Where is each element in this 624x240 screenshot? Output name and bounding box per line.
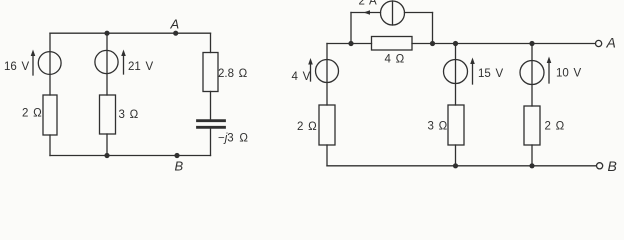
resistor 2 ohm (right circuit right) — [524, 106, 540, 145]
svg-text:2 Ω: 2 Ω — [22, 108, 42, 120]
svg-text:A: A — [170, 17, 180, 32]
wire: right circuit middle branch vertical — [455, 44, 457, 106]
wire: right circuit left branch vertical — [326, 44, 328, 106]
svg-text:3 Ω: 3 Ω — [119, 109, 139, 121]
capacitor -j3 ohm — [198, 121, 225, 128]
junction: right branch on bottom rail — [529, 163, 534, 168]
wire: left circuit right branch vertical — [210, 33, 212, 52]
wire: left circuit left branch vertical — [49, 33, 51, 95]
resistor 2 ohm (left circuit) — [43, 95, 57, 135]
junction: right branch on top rail — [529, 41, 534, 46]
svg-text:21 V: 21 V — [128, 61, 153, 73]
terminal B (open circle) — [597, 163, 603, 169]
resistor 4 ohm — [372, 37, 413, 51]
svg-text:2.8 Ω: 2.8 Ω — [218, 68, 248, 80]
wire: right circuit bottom rail — [327, 165, 596, 167]
wire: 2A loop left side — [351, 12, 381, 14]
junction: middle branch on top rail — [453, 41, 458, 46]
junction: middle branch on bottom rail — [453, 163, 458, 168]
wire: right circuit top rail — [327, 43, 372, 45]
svg-text:4 Ω: 4 Ω — [385, 53, 405, 65]
svg-text:16 V: 16 V — [4, 61, 29, 73]
svg-text:2 Ω: 2 Ω — [545, 121, 565, 133]
wire: left circuit bottom rail — [50, 155, 211, 157]
svg-text:3 Ω: 3 Ω — [428, 121, 448, 133]
junction: middle branch to bottom rail — [104, 153, 109, 158]
current source 2 A — [381, 1, 405, 25]
resistor 3 ohm (left circuit) — [100, 95, 116, 134]
voltage source 4 V — [308, 58, 338, 83]
voltage source 15 V — [444, 58, 475, 85]
arrow for 2 A (pointing left) — [364, 10, 371, 15]
junction: 2A loop right on top rail — [430, 41, 435, 46]
svg-text:B: B — [175, 159, 184, 173]
node A (left circuit) — [173, 31, 178, 36]
wire: right circuit right branch vertical — [531, 44, 533, 107]
voltage source 16 V — [31, 50, 61, 76]
resistor 3 ohm (right circuit) — [448, 105, 464, 145]
wire: left circuit middle branch vertical — [106, 33, 108, 95]
svg-text:B: B — [608, 158, 617, 172]
voltage source 21 V — [95, 50, 126, 75]
node B (left circuit) — [174, 153, 179, 158]
svg-text:10 V: 10 V — [556, 68, 581, 80]
junction: middle branch to top rail — [104, 31, 109, 36]
svg-text:A: A — [606, 35, 616, 51]
junction: 2A loop left on top rail — [348, 41, 353, 46]
svg-text:4 V: 4 V — [292, 71, 311, 83]
resistor 2.8 ohm — [203, 53, 218, 92]
svg-text:2 A: 2 A — [359, 0, 377, 8]
resistor 2 ohm (right circuit left) — [319, 105, 335, 145]
wire: 2A loop right side — [405, 12, 433, 14]
svg-text:−j3 Ω: −j3 Ω — [218, 133, 248, 145]
terminal A (open circle) — [596, 40, 602, 46]
svg-text:2 Ω: 2 Ω — [297, 121, 317, 133]
svg-text:15 V: 15 V — [478, 68, 503, 80]
voltage source 10 V — [520, 57, 551, 85]
wire: left circuit top rail — [50, 32, 211, 34]
